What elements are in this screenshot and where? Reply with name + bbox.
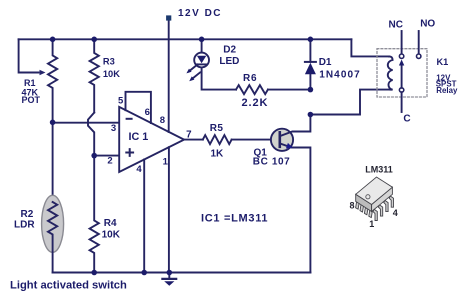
svg-text:2: 2 (107, 155, 112, 166)
DIP body left face (356, 194, 372, 211)
node D1 anode / R6 (308, 87, 314, 93)
wire bottom rail (53, 272, 311, 274)
transistor Q1 base bar (278, 132, 281, 147)
transistor Q1 emitter arrowhead (286, 143, 293, 149)
svg-text:10K: 10K (102, 230, 121, 241)
LDR R2 ellipse (42, 195, 64, 252)
svg-text:4: 4 (136, 164, 142, 175)
svg-text:IC1 =LM311: IC1 =LM311 (201, 213, 268, 225)
DIP body top face (356, 177, 393, 205)
svg-text:2.2K: 2.2K (242, 97, 269, 109)
resistor R5 zigzag (203, 135, 232, 144)
node D1 cathode rail (308, 37, 314, 43)
DIP left pin 2 (360, 205, 364, 212)
node R4 bottom (91, 270, 97, 276)
transistor Q1 emitter (280, 143, 311, 272)
op-amp plus symbol (126, 149, 133, 156)
wire common terminal C (401, 92, 403, 112)
svg-text:7: 7 (186, 129, 192, 140)
svg-text:D1: D1 (319, 57, 332, 68)
LDR R2 zigzag (48, 202, 57, 273)
LED D2 triangle (197, 56, 206, 64)
wire LED cathode to R6 (202, 67, 236, 89)
node pin 4 ground (141, 270, 147, 276)
node R3 top (91, 37, 97, 43)
node pin 1 ground (167, 270, 173, 276)
wire NO terminal (418, 31, 420, 54)
wire R3-R4 hop over pin3 wire (88, 113, 94, 156)
op-amp U1 LM311 triangle (119, 107, 184, 172)
DIP pin1 index dot (366, 195, 370, 199)
transistor Q1 collector (280, 115, 311, 137)
DIP left pin 1 (356, 202, 360, 209)
LED D2 light arrow 1 (189, 65, 197, 72)
diode D1 wires (309, 39, 311, 89)
relay K1 coil (388, 56, 393, 89)
svg-text:1N4007: 1N4007 (319, 70, 361, 81)
DIP left pin 4 (369, 210, 373, 217)
svg-text:R2: R2 (21, 209, 34, 220)
svg-text:1: 1 (369, 219, 374, 229)
svg-text:6: 6 (145, 107, 150, 118)
svg-text:NC: NC (389, 20, 403, 31)
node collector / relay (308, 112, 314, 118)
LED D2 cathode bar (197, 63, 206, 65)
DIP right pin 5 (373, 209, 377, 220)
svg-text:R6: R6 (243, 73, 257, 84)
DIP right pin 7 (384, 200, 388, 211)
svg-text:1K: 1K (211, 148, 225, 159)
LED D2 light arrow 2 (192, 72, 200, 79)
LED D2 circle (194, 53, 209, 68)
resistor R3 zigzag (90, 39, 99, 112)
wire pin 7 output (184, 139, 203, 141)
wire pot wiper feed (19, 39, 39, 72)
svg-text:R3: R3 (103, 57, 115, 67)
svg-text:NO: NO (420, 19, 435, 30)
node pot wiper / pin 3 (50, 120, 56, 126)
wire R6 to D1 node (268, 89, 310, 91)
wire pin 8 to +12V (168, 21, 170, 132)
svg-text:BC 107: BC 107 (253, 156, 291, 167)
svg-text:12V DC: 12V DC (178, 8, 222, 19)
svg-text:R4: R4 (104, 218, 117, 229)
svg-text:D2: D2 (223, 45, 236, 56)
LED D2 anode wire (201, 39, 203, 52)
DIP body right face (372, 187, 393, 211)
power node 12V DC square (166, 15, 171, 20)
DIP left pin 3 (364, 207, 368, 214)
relay NO contact circle (417, 54, 421, 58)
wire NC terminal (401, 31, 403, 54)
svg-text:K1: K1 (437, 57, 449, 67)
svg-text:3: 3 (111, 123, 116, 134)
relay armature arrowhead (399, 60, 404, 66)
resistor R1 zigzag (48, 39, 57, 122)
transistor Q1 circle (271, 129, 293, 151)
wire R1 bottom to LDR (52, 123, 54, 202)
DIP right pin 6 (378, 205, 382, 216)
wire R5 to Q1 base (232, 139, 271, 141)
wire rail to relay coil top (351, 39, 389, 56)
resistor R4 zigzag (90, 156, 99, 273)
svg-text:8: 8 (350, 201, 355, 211)
svg-text:1: 1 (163, 156, 169, 167)
wire op-amp pin 4 to ground rail (143, 160, 145, 273)
relay NC contact circle (399, 54, 403, 58)
svg-text:LED: LED (219, 56, 239, 67)
svg-text:POT: POT (22, 95, 41, 105)
svg-text:IC 1: IC 1 (129, 131, 149, 143)
svg-text:C: C (403, 113, 410, 124)
node R3-R4 / pin 2 (91, 153, 97, 159)
IC package LM311 DIP-8 illustration (356, 177, 394, 221)
wire pin 2 branch (94, 155, 119, 157)
svg-text:10K: 10K (103, 69, 120, 79)
wire pot junction to pin 3 (53, 122, 120, 124)
diode D1 cathode bar (305, 61, 316, 63)
node pot top (50, 37, 56, 43)
relay common contact circle (399, 88, 403, 92)
wire pins 5-6 balance loop (126, 92, 151, 123)
op-amp minus symbol (127, 118, 132, 120)
wire top +12V rail (19, 38, 352, 40)
svg-text:8: 8 (160, 115, 165, 126)
wire collector node to relay coil bottom (310, 90, 389, 115)
svg-text:4: 4 (393, 208, 398, 218)
relay armature arrow shaft (401, 64, 403, 88)
potentiometer R1 wiper arrowhead (40, 70, 46, 75)
resistor R6 zigzag (236, 85, 268, 94)
svg-text:5: 5 (118, 96, 124, 107)
ground symbol (168, 273, 170, 279)
svg-text:LM311: LM311 (365, 165, 393, 175)
wire op-amp pin 1 to ground rail (168, 147, 170, 272)
diode D1 triangle (305, 63, 316, 74)
relay K1 dashed enclosure (377, 49, 427, 97)
svg-text:R5: R5 (210, 123, 224, 134)
svg-text:LDR: LDR (14, 220, 35, 231)
DIP right pin 8 (389, 196, 393, 207)
svg-text:Light activated switch: Light activated switch (10, 280, 127, 292)
node LED anode (199, 37, 205, 43)
svg-text:Relay: Relay (436, 86, 458, 95)
